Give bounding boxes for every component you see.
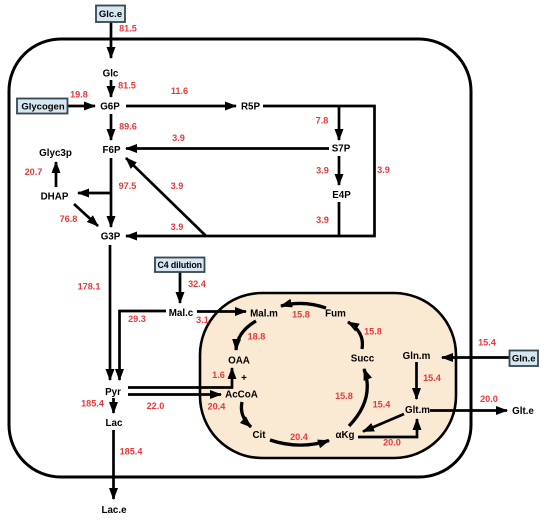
- svg-text:+: +: [241, 373, 247, 384]
- svg-text:185.4: 185.4: [81, 399, 105, 409]
- box Glc.e: [96, 6, 125, 23]
- svg-text:S7P: S7P: [332, 143, 351, 154]
- svg-text:15.8: 15.8: [292, 310, 310, 320]
- wire Glt.m to Glt.e: [430, 409, 507, 412]
- svg-text:OAA: OAA: [228, 355, 250, 366]
- svg-text:3.9: 3.9: [171, 222, 184, 232]
- svg-text:Pyr: Pyr: [105, 387, 121, 398]
- wire Glc to G6P: [110, 80, 113, 97]
- cell membrane: [9, 39, 471, 477]
- svg-text:Cit: Cit: [252, 430, 266, 441]
- svg-text:Glc: Glc: [103, 68, 119, 79]
- wire S7P to F6P: [126, 147, 329, 150]
- svg-text:89.6: 89.6: [119, 122, 137, 132]
- wire aKg to Glt.m: [358, 419, 417, 437]
- svg-text:Lac.e: Lac.e: [101, 505, 127, 516]
- wire DHAP to G3P diagonal: [74, 204, 98, 226]
- wire Lac to Lac.e: [112, 430, 115, 499]
- wire G3P to Pyr: [109, 245, 112, 380]
- svg-text:F6P: F6P: [103, 145, 121, 156]
- wire Glt.m to aKg: [363, 414, 404, 432]
- wire G6P to R5P: [126, 105, 236, 108]
- svg-text:Glc.e: Glc.e: [99, 9, 122, 20]
- svg-text:1.6: 1.6: [212, 370, 225, 380]
- svg-text:Glyc3p: Glyc3p: [39, 148, 72, 159]
- wire G6P to F6P: [110, 114, 113, 140]
- svg-text:AcCoA: AcCoA: [225, 389, 258, 400]
- svg-text:22.0: 22.0: [147, 401, 165, 411]
- svg-text:11.6: 11.6: [171, 86, 188, 96]
- svg-text:Gln.e: Gln.e: [512, 354, 536, 365]
- svg-text:Glt.e: Glt.e: [512, 406, 534, 417]
- svg-text:Glycogen: Glycogen: [21, 102, 64, 113]
- box Glycogen: [17, 99, 68, 114]
- svg-text:178.1: 178.1: [78, 282, 101, 292]
- svg-text:15.4: 15.4: [423, 373, 442, 383]
- mitochondrion: [200, 293, 456, 458]
- wire Succ to Fum curve: [348, 322, 362, 349]
- wire S7P to E4P: [338, 156, 341, 185]
- svg-text:3.1: 3.1: [196, 315, 209, 325]
- svg-text:185.4: 185.4: [120, 447, 144, 457]
- svg-text:97.5: 97.5: [119, 181, 137, 191]
- wire C4 dilution to Mal.c: [179, 272, 182, 303]
- svg-text:81.5: 81.5: [119, 24, 137, 34]
- svg-text:20.0: 20.0: [480, 394, 498, 404]
- box Gln.e: [510, 351, 539, 367]
- svg-text:G6P: G6P: [100, 101, 120, 112]
- wire R5P branch to S7P: [338, 106, 341, 140]
- wire Fum to Mal.m curve: [281, 303, 326, 308]
- wire F6P to G3P: [110, 158, 113, 227]
- svg-text:20.4: 20.4: [208, 402, 227, 412]
- svg-text:Gln.m: Gln.m: [403, 351, 431, 362]
- svg-text:DHAP: DHAP: [41, 191, 69, 202]
- wire R5P right loop to G3P: [126, 106, 375, 236]
- wire Cit to aKg curve: [270, 440, 329, 445]
- svg-text:20.7: 20.7: [25, 167, 43, 177]
- svg-text:32.4: 32.4: [188, 279, 207, 289]
- wire Pyr to OAA: [128, 368, 232, 388]
- wire diagonal to F6P: [126, 158, 206, 236]
- svg-text:C4 dilution: C4 dilution: [158, 260, 202, 270]
- svg-text:20.0: 20.0: [383, 438, 401, 448]
- svg-text:15.4: 15.4: [373, 400, 392, 410]
- wire Pyr to Lac: [112, 398, 115, 413]
- wire Gln.m to Glt.m: [415, 362, 418, 399]
- wire branch to DHAP: [78, 192, 112, 195]
- svg-text:Mal.m: Mal.m: [250, 308, 278, 319]
- svg-text:Succ: Succ: [351, 353, 375, 364]
- svg-text:Fum: Fum: [325, 308, 346, 319]
- svg-text:R5P: R5P: [241, 101, 261, 112]
- svg-text:3.9: 3.9: [316, 215, 329, 225]
- wire Gln.e to Gln.m: [442, 356, 509, 359]
- svg-text:15.8: 15.8: [335, 391, 353, 401]
- svg-text:Glt.m: Glt.m: [405, 405, 430, 416]
- svg-text:76.8: 76.8: [60, 214, 78, 224]
- svg-text:81.5: 81.5: [118, 81, 136, 91]
- svg-text:3.9: 3.9: [316, 166, 329, 176]
- svg-text:15.4: 15.4: [478, 338, 497, 348]
- svg-text:18.8: 18.8: [248, 332, 266, 342]
- svg-text:E4P: E4P: [332, 190, 351, 201]
- svg-text:Lac: Lac: [106, 418, 123, 429]
- svg-text:αKg: αKg: [335, 430, 354, 441]
- svg-text:7.8: 7.8: [316, 116, 329, 126]
- svg-text:29.3: 29.3: [128, 314, 146, 324]
- svg-text:3.9: 3.9: [172, 133, 185, 143]
- wire Mal.m to OAA curve: [236, 321, 256, 350]
- wire Glc.e to Glc: [110, 22, 113, 58]
- svg-text:3.9: 3.9: [171, 181, 184, 191]
- box C4 dilution: [155, 258, 205, 273]
- wire AcCoA to Cit curve: [241, 402, 251, 427]
- wire Pyr to AcCoA: [128, 393, 221, 396]
- wire aKg to Succ curve: [349, 369, 367, 426]
- wire Glycogen to G6P: [68, 105, 95, 108]
- wire Mal.c to Mal.m: [197, 310, 246, 313]
- svg-text:15.8: 15.8: [364, 327, 382, 337]
- svg-text:3.9: 3.9: [377, 165, 390, 175]
- svg-text:G3P: G3P: [101, 231, 121, 242]
- svg-text:20.4: 20.4: [290, 432, 309, 442]
- wire E4P down to loop: [338, 202, 341, 237]
- wire DHAP to Glyc3p: [55, 162, 58, 187]
- wire Mal.c to Pyr: [120, 311, 167, 380]
- svg-text:Mal.c: Mal.c: [169, 308, 194, 319]
- svg-text:19.8: 19.8: [70, 90, 88, 100]
